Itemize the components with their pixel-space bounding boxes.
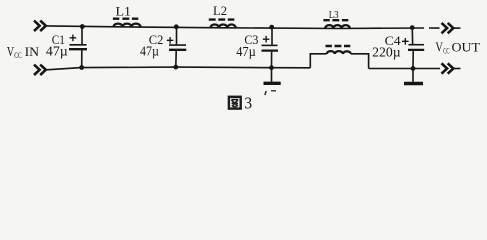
wire bottom rail right [369, 68, 440, 70]
ground at C3 [264, 70, 281, 91]
value 220u C4 [372, 45, 401, 60]
output arrow top [442, 23, 461, 33]
junction dot C1 bottom [79, 65, 84, 70]
svg-text:V: V [435, 41, 443, 56]
junction dot C4 top [410, 25, 415, 30]
svg-text:CC: CC [443, 46, 450, 56]
figure label: 3 [244, 94, 252, 113]
label C2 [149, 33, 164, 47]
inductor L3 lower winding [326, 46, 351, 54]
svg-text:V: V [7, 45, 14, 60]
label C4 [385, 34, 402, 48]
junction dot C4 bottom [411, 66, 416, 71]
svg-text:CC: CC [14, 50, 22, 60]
svg-text:OUT: OUT [452, 40, 481, 55]
junction dot C2 top [174, 24, 179, 29]
capacitor C3 [262, 27, 279, 67]
svg-text:47µ: 47µ [236, 44, 256, 59]
input arrow bottom [34, 65, 46, 75]
value 47u C3 [236, 44, 256, 59]
junction dot C3 top [269, 25, 274, 30]
svg-text:47µ: 47µ [140, 43, 159, 58]
label Vcc IN [7, 44, 40, 60]
stray mark [265, 91, 266, 95]
wire bottom winding jog [310, 54, 368, 69]
label L3 [329, 10, 339, 21]
input arrow top [34, 21, 46, 31]
capacitor C1 [69, 27, 87, 67]
inductor L1 [113, 19, 141, 27]
value 47u C2 [140, 43, 159, 58]
svg-text:L2: L2 [213, 4, 227, 18]
wire top rail [47, 26, 440, 29]
svg-text:220µ: 220µ [372, 45, 401, 60]
svg-text:3: 3 [244, 94, 252, 113]
capacitor C2 [167, 27, 187, 67]
output arrow bottom [442, 63, 461, 73]
label Vcc OUT [435, 40, 480, 56]
figure label: glyph 图 [229, 97, 241, 109]
svg-text:IN: IN [25, 44, 40, 59]
junction dot C3 bottom [269, 65, 274, 70]
ground at C4 [404, 71, 423, 84]
wire bottom rail left [47, 67, 311, 70]
label C1 [52, 33, 65, 47]
inductor L2 [209, 20, 236, 28]
inductor L3 upper winding [323, 20, 349, 28]
svg-text:L3: L3 [329, 10, 339, 21]
svg-text:L1: L1 [116, 4, 132, 18]
svg-text:47µ: 47µ [46, 44, 68, 59]
label C3 [244, 33, 258, 47]
junction dot C2 bottom [173, 65, 178, 70]
junction dot C1 top [80, 24, 85, 29]
label L1 [116, 4, 132, 18]
capacitor C4 [402, 28, 424, 69]
label L2 [213, 4, 227, 18]
value 47u C1 [46, 44, 68, 59]
